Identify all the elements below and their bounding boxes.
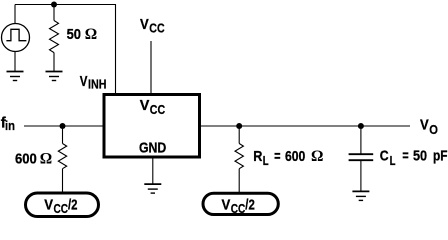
svg-text:O: O (429, 122, 438, 137)
svg-text:pF: pF (433, 148, 448, 165)
svg-text:L: L (390, 153, 396, 168)
svg-text:V: V (420, 116, 429, 133)
svg-text:V: V (80, 73, 88, 90)
svg-text:GND: GND (139, 140, 166, 157)
svg-text:/2: /2 (68, 197, 78, 214)
svg-text:600: 600 (15, 150, 37, 167)
svg-text:V: V (140, 16, 149, 33)
svg-text:CC: CC (149, 21, 165, 36)
svg-text:R: R (253, 148, 262, 165)
svg-text:CC: CC (150, 102, 166, 117)
svg-text:600: 600 (285, 148, 305, 165)
svg-text:L: L (263, 153, 269, 168)
svg-text:V: V (140, 97, 150, 114)
svg-text:Ω: Ω (40, 150, 52, 167)
svg-text:50: 50 (413, 148, 427, 165)
svg-text:50: 50 (67, 26, 81, 43)
svg-text:CC: CC (54, 201, 69, 216)
svg-text:=: = (274, 148, 281, 165)
svg-text:/2: /2 (245, 197, 255, 214)
svg-text:V: V (44, 197, 53, 214)
svg-text:Ω: Ω (311, 148, 323, 165)
svg-text:=: = (402, 148, 408, 165)
svg-text:in: in (5, 118, 15, 133)
svg-text:CC: CC (231, 201, 246, 216)
svg-text:Ω: Ω (85, 26, 97, 43)
svg-text:INH: INH (88, 77, 107, 92)
svg-text:C: C (380, 148, 389, 165)
svg-text:V: V (222, 197, 231, 214)
